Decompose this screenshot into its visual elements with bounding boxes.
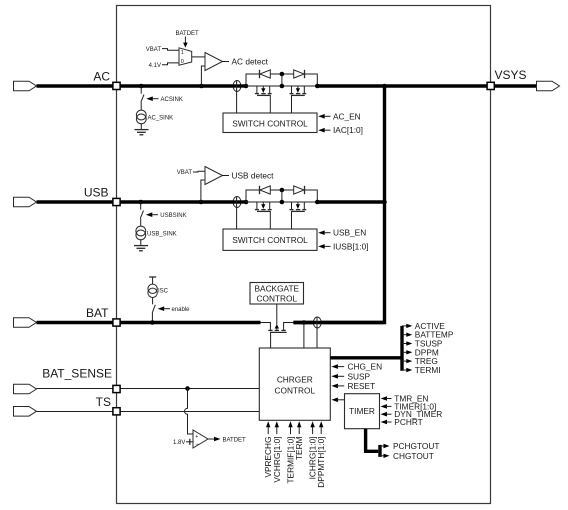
wire switch to source bbox=[140, 218, 142, 226]
svg-text:CONTROL: CONTROL bbox=[257, 293, 298, 303]
node AC rejoin bbox=[315, 84, 320, 89]
ground bbox=[134, 245, 148, 247]
mosfet Q4 bbox=[290, 202, 307, 229]
wire USB sink stub bbox=[140, 202, 142, 210]
signal BATTEMP bbox=[402, 334, 407, 336]
node AC fet mid bbox=[280, 84, 285, 89]
diode D3 bbox=[259, 186, 261, 194]
node diode branch tap AC bbox=[244, 84, 249, 89]
switch USBSINK bbox=[140, 211, 143, 219]
wire 1.8V input bbox=[186, 441, 193, 443]
signal SUSP bbox=[331, 374, 338, 379]
wire USB rail (port to sensor) bbox=[37, 200, 233, 203]
svg-text:TS: TS bbox=[96, 395, 111, 409]
current source ISC bbox=[148, 284, 157, 293]
wire comparator tap riser bbox=[201, 66, 205, 86]
wire comparator tap riser USB bbox=[201, 180, 205, 202]
terminal AC pin bbox=[113, 82, 120, 89]
svg-text:TIMER: TIMER bbox=[349, 406, 375, 416]
signal DYN_TIMER bbox=[381, 412, 388, 417]
wire BATDET arrow bbox=[184, 37, 186, 44]
wire source to ground bbox=[140, 124, 142, 130]
signal RESET bbox=[331, 384, 338, 389]
svg-text:IUSB[1:0]: IUSB[1:0] bbox=[333, 241, 369, 251]
block SWITCH CONTROL (USB) bbox=[223, 229, 317, 250]
wire sensor USB lead bbox=[236, 197, 238, 229]
wire TS bbox=[37, 411, 260, 413]
terminal BAT pin bbox=[113, 319, 120, 326]
wire mux to comparator bbox=[192, 56, 205, 58]
signal TERM bbox=[298, 427, 300, 434]
terminal BAT_SENSE pin bbox=[113, 385, 120, 392]
svg-text:ISC: ISC bbox=[158, 288, 169, 294]
wire USB fet rail bbox=[246, 201, 317, 203]
svg-text:SWITCH CONTROL: SWITCH CONTROL bbox=[232, 118, 308, 128]
wire USB rail through sensor bbox=[232, 200, 246, 203]
node ISC tap bbox=[150, 320, 155, 325]
signal PCHRT bbox=[381, 420, 388, 425]
node AC comparator tap bbox=[199, 84, 204, 89]
diode D4 bbox=[294, 186, 304, 194]
wire diode branch right USB bbox=[305, 190, 318, 202]
node AC sink tap bbox=[139, 84, 144, 89]
wire 4.1V to mux bbox=[162, 63, 179, 65]
svg-text:BATDET: BATDET bbox=[176, 31, 200, 37]
svg-text:TERM: TERM bbox=[294, 436, 304, 460]
port VSYS bbox=[537, 81, 560, 91]
node USB sink tap bbox=[138, 200, 143, 205]
signal PCHGTOUT bbox=[380, 445, 384, 447]
svg-text:1.8V: 1.8V bbox=[173, 440, 185, 446]
signal ICHRG[1:0] bbox=[312, 427, 314, 434]
wire diode branch right AC bbox=[305, 74, 318, 86]
svg-text:SUSP: SUSP bbox=[348, 371, 371, 381]
svg-text:TERMI: TERMI bbox=[415, 365, 441, 375]
svg-text:USBSINK: USBSINK bbox=[160, 213, 186, 219]
wire charger tap lead bbox=[303, 323, 305, 349]
node USB comparator tap bbox=[199, 200, 204, 205]
diode D1 bbox=[259, 70, 261, 78]
svg-text:VBAT: VBAT bbox=[177, 170, 193, 176]
wire USB detect output bbox=[223, 175, 230, 177]
terminal VSYS pin bbox=[487, 82, 494, 89]
svg-text:PCHRT: PCHRT bbox=[394, 417, 422, 427]
wire status bus vertical bbox=[400, 326, 403, 371]
comparator USB detect bbox=[205, 167, 223, 185]
svg-text:ACSINK: ACSINK bbox=[161, 97, 183, 103]
node diode branch tap USB bbox=[244, 200, 249, 205]
node BAT_SENSE tap bbox=[185, 386, 190, 391]
wire USB rail to bus bbox=[317, 200, 384, 203]
svg-text:AC detect: AC detect bbox=[232, 57, 269, 67]
svg-text:4.1V: 4.1V bbox=[149, 63, 161, 69]
port BAT bbox=[14, 318, 37, 328]
port TS bbox=[14, 407, 37, 417]
signal TERMI bbox=[402, 369, 407, 371]
signal IUSB[1:0] bbox=[318, 244, 325, 249]
current sensor USB bbox=[233, 197, 241, 208]
wire charger status thick bbox=[330, 356, 402, 359]
wire BAT_SENSE riser with hop bbox=[185, 389, 194, 435]
wire diode branch riser left bbox=[246, 74, 260, 86]
wire diode branch riser left USB bbox=[246, 190, 260, 202]
svg-text:BAT: BAT bbox=[86, 306, 109, 320]
block TIMER bbox=[345, 394, 380, 429]
svg-text:AC_SINK: AC_SINK bbox=[148, 115, 174, 121]
mosfet Q5 (backgate) bbox=[261, 304, 294, 348]
svg-text:USB_EN: USB_EN bbox=[333, 228, 366, 238]
wire AC detect output bbox=[223, 61, 230, 63]
switch ISC enable bbox=[152, 305, 155, 313]
svg-text:VCHRG[1:0]: VCHRG[1:0] bbox=[272, 437, 282, 483]
wire sensor BAT lead bbox=[316, 317, 318, 348]
svg-text:DPPMTH[1:0]: DPPMTH[1:0] bbox=[316, 437, 326, 488]
mosfet Q3 bbox=[255, 202, 272, 229]
wire switch to source bbox=[140, 102, 142, 110]
svg-text:VBAT: VBAT bbox=[146, 47, 162, 53]
wire diode mid riser USB bbox=[281, 190, 283, 202]
wire BAT rail through sensor bbox=[313, 321, 385, 324]
svg-text:BAT_SENSE: BAT_SENSE bbox=[42, 367, 112, 381]
port AC bbox=[14, 81, 37, 91]
signal DPPM bbox=[402, 351, 407, 353]
wire diode mid riser AC bbox=[281, 74, 283, 86]
node bus USB bbox=[382, 200, 387, 205]
svg-text:CHG_EN: CHG_EN bbox=[348, 362, 383, 372]
current sensor AC bbox=[233, 81, 241, 92]
svg-text:PCHGTOUT: PCHGTOUT bbox=[393, 441, 439, 451]
diode D2 bbox=[294, 70, 304, 78]
wire BAT rail bbox=[37, 321, 261, 324]
svg-text:+: + bbox=[195, 434, 198, 440]
wire diode mid USB bbox=[270, 189, 293, 191]
block SWITCH CONTROL (AC) bbox=[223, 113, 317, 133]
signal IAC[1:0] bbox=[318, 128, 325, 133]
block CHRGER CONTROL bbox=[259, 348, 330, 420]
mosfet Q2 bbox=[290, 86, 307, 113]
signal VCHRG[1:0] bbox=[276, 427, 278, 434]
signal USB_EN bbox=[318, 230, 325, 235]
current source USB_SINK bbox=[136, 226, 146, 236]
node BAT charger tap bbox=[302, 320, 307, 325]
node diode mid AC bbox=[280, 72, 285, 77]
ground bbox=[135, 129, 149, 131]
mosfet Q1 bbox=[255, 86, 272, 113]
svg-text:BATDET: BATDET bbox=[223, 437, 247, 443]
wire AC rail through sensor bbox=[232, 84, 246, 87]
node USB rejoin bbox=[315, 200, 320, 205]
signal DPPMTH[1:0] bbox=[320, 427, 322, 434]
wire VSYS vertical bus bbox=[293, 86, 384, 323]
svg-text:SWITCH CONTROL: SWITCH CONTROL bbox=[232, 235, 308, 245]
current sensor BAT bbox=[313, 317, 321, 328]
svg-text:IAC[1:0]: IAC[1:0] bbox=[333, 125, 363, 135]
node diode mid USB bbox=[280, 188, 285, 193]
svg-text:CONTROL: CONTROL bbox=[275, 385, 316, 395]
wire ISC stub bbox=[152, 277, 154, 284]
signal TIMER[1:0] bbox=[381, 404, 388, 409]
wire AC sink stub bbox=[140, 86, 142, 94]
signal TSUSP bbox=[402, 343, 407, 345]
terminal TS pin bbox=[113, 408, 120, 415]
signal BATDET out bbox=[208, 438, 215, 440]
wire AC fet rail bbox=[246, 85, 317, 87]
signal CHGTOUT bbox=[380, 455, 384, 457]
wire source to ground bbox=[140, 240, 142, 246]
wire BAT_SENSE bbox=[37, 388, 260, 390]
node USB fet mid bbox=[280, 200, 285, 205]
svg-text:CHGTOUT: CHGTOUT bbox=[393, 451, 434, 461]
wire diode mid AC bbox=[270, 73, 293, 75]
wire VBAT to mux bbox=[162, 49, 179, 51]
signal USBSINK bbox=[146, 212, 153, 217]
wire AC rail to VSYS bbox=[317, 84, 536, 87]
signal ACSINK bbox=[146, 96, 153, 101]
current source AC_SINK bbox=[136, 110, 146, 120]
IC block outline bbox=[117, 6, 491, 504]
signal AC_EN bbox=[318, 114, 325, 119]
svg-text:USB detect: USB detect bbox=[232, 171, 275, 181]
terminal USB pin bbox=[113, 198, 120, 205]
signal TERMIF[1:0] bbox=[290, 427, 292, 434]
port USB bbox=[14, 197, 37, 207]
svg-text:USB_SINK: USB_SINK bbox=[147, 231, 177, 237]
signal enable bbox=[158, 306, 165, 311]
wire BAT rail right segment bbox=[293, 321, 313, 324]
svg-text:CHRGER: CHRGER bbox=[277, 374, 313, 384]
signal VPRECHG bbox=[267, 427, 269, 434]
port BAT_SENSE bbox=[14, 384, 37, 394]
svg-text:−: − bbox=[195, 442, 199, 448]
wire VBAT to comparator bbox=[193, 170, 205, 173]
wire timer output thick bbox=[366, 429, 379, 452]
signal CHG_EN bbox=[331, 364, 338, 369]
svg-text:1: 1 bbox=[181, 50, 184, 56]
signal timer to charger bbox=[331, 398, 338, 403]
switch ACSINK bbox=[141, 95, 144, 103]
signal TMR_EN bbox=[381, 396, 388, 401]
wire AC rail (port to sensor) bbox=[37, 84, 233, 87]
svg-text:enable: enable bbox=[172, 307, 191, 313]
block BACKGATE CONTROL bbox=[250, 283, 304, 305]
node bus AC bbox=[382, 84, 387, 89]
wire sensor AC lead to switch control bbox=[236, 81, 238, 113]
mux BATDET select bbox=[179, 48, 192, 65]
wire switch to rail bbox=[151, 312, 153, 322]
svg-text:USB: USB bbox=[84, 186, 109, 200]
supply bar ISC bbox=[149, 276, 156, 278]
svg-text:BACKGATE: BACKGATE bbox=[255, 284, 300, 294]
svg-text:AC_EN: AC_EN bbox=[333, 111, 361, 121]
signal TREG bbox=[402, 360, 407, 362]
comparator AC detect bbox=[205, 53, 223, 71]
svg-text:RESET: RESET bbox=[348, 381, 376, 391]
comparator BATDET (1.8V) bbox=[193, 430, 208, 448]
svg-text:AC: AC bbox=[93, 70, 110, 84]
signal ACTIVE bbox=[402, 325, 407, 327]
svg-text:0: 0 bbox=[181, 59, 184, 65]
wire ISC to switch bbox=[152, 298, 154, 305]
svg-text:VSYS: VSYS bbox=[495, 68, 527, 82]
